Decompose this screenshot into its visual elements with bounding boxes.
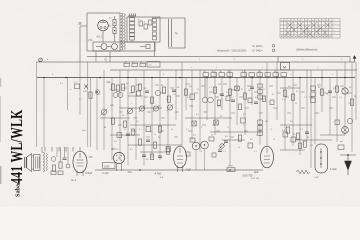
- svg-text:441 WL/WLK: 441 WL/WLK: [8, 109, 27, 184]
- svg-text:2k: 2k: [274, 71, 276, 73]
- svg-text:0,2: 0,2: [186, 129, 189, 131]
- svg-text:6: 6: [302, 59, 303, 61]
- svg-text:2: 2: [216, 67, 217, 69]
- svg-text:3k: 3k: [272, 94, 274, 96]
- svg-text:2μF: 2μF: [254, 170, 259, 174]
- svg-text:x: x: [141, 98, 142, 100]
- svg-text:6k: 6k: [161, 85, 163, 87]
- svg-text:0,05 700: 0,05 700: [243, 174, 254, 178]
- svg-text:AZ 1: AZ 1: [97, 36, 103, 39]
- svg-text:50: 50: [273, 139, 275, 141]
- svg-text:1k: 1k: [220, 71, 222, 73]
- svg-text:0,5μF: 0,5μF: [86, 171, 93, 175]
- svg-text:0,3: 0,3: [209, 87, 212, 89]
- svg-text:1M: 1M: [218, 84, 221, 86]
- svg-text:25: 25: [270, 129, 272, 131]
- svg-text:0,1: 0,1: [187, 97, 190, 99]
- svg-text:e: e: [191, 67, 192, 69]
- svg-text:c: c: [140, 74, 141, 76]
- svg-text:AL 4: AL 4: [71, 179, 77, 182]
- svg-text:0,5: 0,5: [79, 99, 82, 101]
- svg-text:1k: 1k: [109, 89, 111, 91]
- svg-text:8: 8: [332, 74, 333, 76]
- svg-text:1k: 1k: [348, 103, 350, 105]
- svg-text:−·−: −·−: [333, 33, 336, 35]
- svg-text:Saba: Saba: [15, 184, 22, 197]
- svg-text:2k: 2k: [158, 137, 160, 139]
- svg-text:−·−: −·−: [333, 37, 336, 39]
- svg-text:1,5A: 1,5A: [88, 39, 93, 42]
- svg-text:2k: 2k: [219, 94, 221, 96]
- svg-text:0,05 700: 0,05 700: [251, 178, 260, 180]
- svg-text:0,4: 0,4: [339, 97, 342, 99]
- svg-text:±7μ: ±7μ: [128, 170, 133, 174]
- svg-text:0,1μF: 0,1μF: [103, 172, 110, 175]
- svg-text:Netzanschl. ~110/125/150V: Netzanschl. ~110/125/150V: [217, 50, 247, 53]
- svg-text:20: 20: [124, 129, 126, 131]
- svg-text:2k: 2k: [144, 88, 146, 90]
- svg-text:30: 30: [171, 129, 173, 131]
- svg-text:60: 60: [241, 89, 243, 91]
- svg-text:8: 8: [201, 127, 202, 129]
- svg-text:2μF: 2μF: [187, 168, 192, 172]
- svg-text:4: 4: [262, 67, 263, 69]
- svg-text:−·−: −·−: [333, 24, 336, 26]
- svg-text:0,2: 0,2: [119, 107, 122, 109]
- svg-text:9: 9: [256, 135, 257, 137]
- svg-text:ABC 1: ABC 1: [111, 148, 118, 151]
- svg-text:Gl. 240V~: Gl. 240V~: [252, 50, 264, 53]
- svg-text:4k: 4k: [238, 147, 240, 149]
- svg-text:0,1: 0,1: [223, 151, 226, 153]
- svg-text:15: 15: [227, 127, 229, 129]
- svg-text:y: y: [151, 103, 152, 105]
- svg-text:5k: 5k: [154, 134, 156, 136]
- svg-text:1k: 1k: [204, 71, 206, 73]
- svg-text:0,2: 0,2: [243, 125, 246, 127]
- svg-text:z: z: [166, 99, 167, 101]
- svg-text:0,5: 0,5: [255, 97, 258, 99]
- svg-text:2k: 2k: [307, 137, 309, 139]
- svg-text:1k: 1k: [212, 71, 214, 73]
- svg-text:0,1: 0,1: [231, 97, 234, 99]
- svg-text:1,2μF: 1,2μF: [330, 167, 337, 171]
- svg-text:1M: 1M: [173, 94, 176, 96]
- svg-text:7: 7: [317, 67, 318, 69]
- svg-text:−·−: −·−: [333, 27, 336, 29]
- svg-text:6k: 6k: [98, 94, 100, 96]
- svg-text:b: b: [104, 59, 105, 61]
- svg-text:−·−: −·−: [333, 30, 336, 32]
- svg-text:5: 5: [290, 74, 291, 76]
- svg-text:1: 1: [199, 59, 200, 61]
- svg-text:2k: 2k: [141, 62, 143, 64]
- svg-text:1k: 1k: [228, 71, 230, 73]
- svg-text:0,1: 0,1: [139, 129, 142, 131]
- svg-text:0,5V: 0,5V: [104, 164, 110, 168]
- svg-text:70: 70: [326, 94, 328, 96]
- svg-text:1M: 1M: [265, 121, 268, 123]
- svg-text:0,3: 0,3: [254, 151, 257, 153]
- svg-text:M: M: [283, 66, 286, 70]
- svg-text:40: 40: [295, 103, 297, 105]
- svg-text:4,7kΩ: 4,7kΩ: [155, 172, 162, 176]
- svg-text:2k: 2k: [354, 96, 356, 98]
- svg-text:0,1: 0,1: [304, 97, 307, 99]
- svg-text:−·−: −·−: [333, 20, 336, 22]
- svg-text:(Wellen/Bereich): (Wellen/Bereich): [296, 48, 317, 52]
- svg-text:4k: 4k: [104, 127, 106, 129]
- svg-text:50: 50: [197, 89, 199, 91]
- svg-text:3: 3: [131, 103, 132, 105]
- svg-text:0,2: 0,2: [282, 99, 285, 101]
- svg-text:0,6: 0,6: [212, 125, 215, 127]
- svg-text:d: d: [163, 74, 164, 76]
- svg-text:Gl. 220V~: Gl. 220V~: [252, 45, 264, 48]
- svg-text:9: 9: [341, 59, 342, 61]
- svg-text:12: 12: [263, 89, 265, 91]
- svg-text:3: 3: [234, 59, 235, 61]
